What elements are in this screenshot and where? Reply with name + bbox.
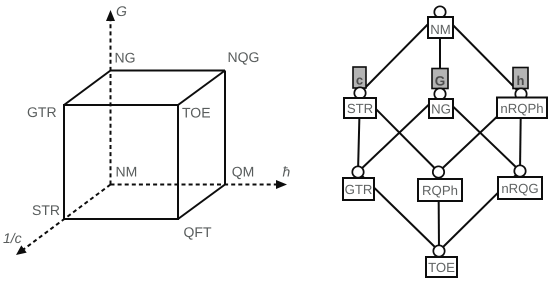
node: edge tag G [432, 69, 448, 89]
node circle above NG [434, 88, 445, 99]
node circle above STR [354, 87, 365, 98]
node circle above nRQG [514, 165, 525, 176]
node: 1/c axis arrowhead [16, 245, 27, 255]
back top edge [111, 70, 226, 72]
node circle above nRQPh [515, 88, 526, 99]
node box TOE [426, 257, 457, 277]
wire nRQPh - RQPh [439, 94, 522, 172]
front face [64, 105, 178, 219]
svg-text:G: G [116, 3, 127, 19]
wire: 1/c axis (dashed diagonal) [21, 185, 111, 252]
node: G axis arrowhead [106, 10, 115, 21]
svg-text:ħ: ħ [283, 164, 291, 180]
svg-text:QFT: QFT [184, 224, 212, 240]
svg-text:NM: NM [430, 22, 451, 37]
node box STR [344, 98, 376, 118]
node circle above NM [434, 6, 445, 17]
wire NG - GTR [358, 94, 440, 172]
wire nRQG - TOE [439, 171, 520, 251]
wire NM - nRQPh [440, 12, 521, 94]
wire nRQPh - nRQG [520, 94, 521, 171]
wire NG - nRQG [440, 94, 520, 171]
wire: cube solid edges [64, 71, 225, 220]
svg-text:NG: NG [115, 50, 136, 66]
node box NG [429, 99, 453, 118]
wire NM - STR [360, 12, 440, 93]
node box RQPh [418, 179, 462, 201]
svg-text:TOE: TOE [182, 105, 211, 121]
node circle above TOE [433, 245, 444, 256]
svg-text:STR: STR [32, 202, 60, 218]
svg-text:h: h [517, 73, 525, 88]
wire STR - RQPh [360, 93, 439, 172]
wire NM - NG [439, 12, 441, 94]
wire RQPh - TOE [438, 172, 441, 251]
node box NM [428, 17, 453, 38]
bottom-right depth edge [178, 185, 225, 220]
svg-text:QM: QM [232, 163, 255, 179]
labels: cube [3, 3, 291, 246]
wire: hbar axis (dashed horizontal) [111, 184, 282, 186]
svg-text:STR: STR [347, 101, 373, 116]
svg-text:GTR: GTR [27, 104, 57, 120]
svg-text:G: G [435, 74, 446, 89]
top-left depth edge [64, 71, 111, 106]
svg-text:NQG: NQG [228, 49, 260, 65]
svg-text:nRQPh: nRQPh [500, 101, 543, 116]
node: edge tag h [513, 68, 528, 89]
top-right depth edge [178, 71, 225, 106]
node: hbar axis arrowhead [276, 180, 287, 189]
node: edge tag c [353, 67, 366, 88]
node circle above RQPh [433, 166, 444, 177]
node box nRQG [498, 177, 542, 199]
wire STR - GTR [358, 93, 360, 172]
node box nRQPh [497, 98, 547, 119]
node box GTR [343, 178, 374, 200]
svg-text:TOE: TOE [428, 260, 455, 275]
svg-text:nRQG: nRQG [501, 181, 538, 196]
svg-text:1/c: 1/c [3, 230, 22, 246]
back right vertical edge [224, 71, 226, 185]
node circle above GTR [352, 166, 363, 177]
svg-text:NG: NG [431, 102, 451, 117]
svg-text:NM: NM [116, 164, 138, 180]
wire: G axis (dashed vertical) [110, 17, 112, 185]
svg-text:c: c [356, 73, 363, 88]
wire GTR - TOE [358, 172, 439, 251]
svg-text:GTR: GTR [345, 182, 373, 197]
svg-text:RQPh: RQPh [422, 183, 458, 198]
